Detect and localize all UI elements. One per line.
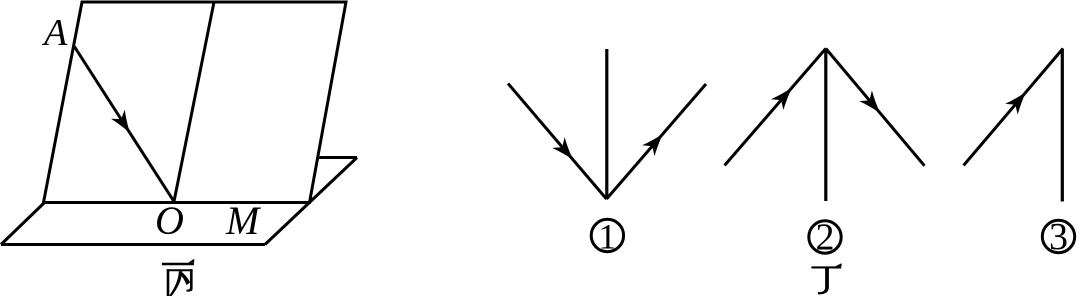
svg-text:3: 3 [1049, 216, 1068, 258]
diagram 2: arrowhead reflected [859, 91, 880, 114]
svg-text:1: 1 [598, 217, 616, 257]
diagram 1: incident ray [508, 84, 607, 200]
svg-text:M: M [225, 198, 262, 243]
label circled 2 [809, 221, 841, 253]
diagram 3: incident ray [964, 49, 1064, 166]
fold line on incline to O [174, 2, 214, 202]
diagram 2: normal (vertical line) [824, 49, 827, 202]
diagram 2: incident ray [725, 49, 826, 166]
table plane back edge (visible part) [317, 156, 357, 159]
svg-text:A: A [41, 12, 68, 54]
table plane left edge (visible part) [1, 203, 44, 245]
inclined plane (tilted parallelogram) [44, 2, 347, 203]
caption 丁 (drawn) [811, 263, 841, 294]
diagram 2: arrowhead incident [771, 88, 792, 110]
svg-text:O: O [155, 198, 184, 243]
label circled 1 [591, 219, 623, 251]
diagram 3: arrowhead incident [1005, 92, 1026, 115]
table plane right edge [265, 158, 357, 245]
label circled 3 [1042, 220, 1074, 252]
diagram 2: reflected ray [826, 49, 925, 166]
diagram 1: arrowhead incident [552, 137, 573, 159]
diagram 1: arrowhead reflected [642, 134, 663, 156]
table plane front edge [1, 243, 265, 246]
diagram 1: normal (vertical line) [605, 49, 608, 199]
diagram 3: normal (vertical line) [1061, 49, 1064, 202]
caption 丙 (drawn) [162, 259, 194, 296]
diagram 1: reflected ray [607, 84, 707, 199]
ray from A to O [74, 46, 174, 202]
arrowhead on ray A-O [111, 110, 130, 133]
svg-text:2: 2 [816, 217, 835, 259]
